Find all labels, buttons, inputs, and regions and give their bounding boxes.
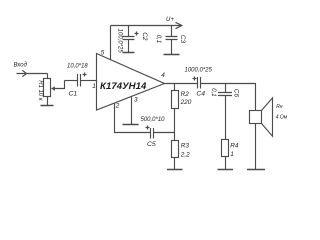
pin 5 wire riser: [110, 26, 112, 60]
svg-text:Rн: Rн: [276, 104, 283, 110]
wire pin 2 to C5: [115, 103, 151, 132]
capacitor C2 value 100,0*25: [128, 26, 130, 37]
svg-text:R3: R3: [181, 142, 190, 149]
wire C5 to junction: [154, 132, 175, 134]
svg-text:К174УН14: К174УН14: [100, 81, 147, 92]
svg-text:R4: R4: [230, 142, 239, 149]
svg-text:C3: C3: [179, 35, 186, 44]
svg-text:220: 220: [180, 99, 192, 106]
ground under speaker: [247, 169, 265, 171]
svg-text:R1 10 к: R1 10 к: [37, 80, 43, 102]
svg-text:100,0*25: 100,0*25: [117, 29, 123, 54]
svg-text:1000,0*25: 1000,0*25: [185, 67, 213, 73]
resistor R4 1: [222, 140, 229, 157]
svg-text:R2: R2: [181, 91, 190, 98]
resistor R2 220: [174, 84, 176, 91]
svg-text:Вход: Вход: [14, 63, 28, 69]
wire R3 down: [174, 158, 176, 170]
capacitor C4 value 1000,0*25: [198, 77, 201, 89]
wire power bus with arrow: [111, 25, 182, 27]
capacitor C3 value 0,1: [171, 26, 173, 37]
wire to C1: [65, 80, 78, 82]
wire C3 down: [171, 40, 173, 55]
svg-text:U+: U+: [166, 17, 174, 23]
wire input drop to R1: [47, 74, 49, 79]
svg-text:C2: C2: [141, 32, 148, 41]
wire pin 3 down: [131, 96, 133, 124]
wire C6 to R4: [225, 96, 227, 140]
speaker BA1 Rн 4 Ом: [250, 111, 262, 124]
wire speaker down: [255, 124, 257, 170]
wire R4 down: [225, 157, 227, 170]
ground under pin 3: [123, 124, 139, 126]
wire output pin 4 to C4: [165, 83, 198, 85]
wire C1 to pin 1: [81, 80, 97, 82]
wire C4 to speaker corner: [201, 84, 256, 111]
wire C2 down: [128, 40, 130, 53]
wiper arrow of R1: [51, 86, 55, 90]
svg-text:10,0*18: 10,0*18: [67, 64, 88, 70]
ground under R1: [47, 97, 49, 106]
svg-text:0,1: 0,1: [155, 35, 161, 43]
svg-text:C4: C4: [196, 91, 205, 98]
ground under R3: [167, 169, 183, 171]
svg-text:0,1: 0,1: [210, 88, 216, 96]
resistor R3 2,2: [172, 141, 179, 158]
op-amp U1 К174УН14: [97, 54, 165, 111]
capacitor C1 value 10,0*18: [78, 74, 81, 87]
svg-text:1: 1: [92, 83, 96, 90]
wire wiper to C1: [55, 81, 65, 89]
resistor R1 (potentiometer 10 к): [44, 79, 51, 97]
svg-text:5: 5: [101, 50, 105, 57]
svg-text:C6: C6: [233, 89, 240, 98]
wire input with direction arrow: [17, 73, 48, 75]
capacitor C5 value 500,0*10: [151, 128, 154, 139]
svg-text:3: 3: [134, 96, 138, 103]
svg-text:4 Ом: 4 Ом: [276, 115, 288, 121]
svg-text:500,0*10: 500,0*10: [141, 117, 166, 123]
svg-text:1: 1: [230, 151, 234, 158]
ground under C2: [123, 52, 135, 54]
svg-text:C5: C5: [147, 141, 156, 148]
capacitor C6 value 0,1: [225, 84, 227, 93]
wire R2 to R3: [174, 109, 176, 141]
svg-text:C1: C1: [69, 91, 78, 98]
ground under C3: [164, 54, 180, 56]
ground under R4: [218, 169, 234, 171]
svg-text:4: 4: [161, 72, 165, 79]
svg-text:2: 2: [115, 103, 120, 110]
svg-text:2,2: 2,2: [180, 151, 190, 158]
